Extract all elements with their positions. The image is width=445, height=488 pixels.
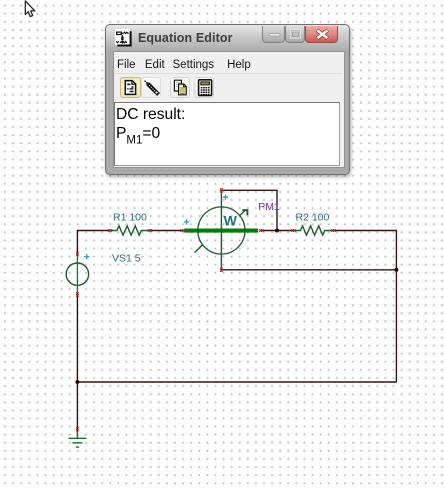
wattmeter PM1 <box>185 190 259 269</box>
R1 terminal pin marks <box>108 229 112 231</box>
wire: right vertical rail <box>395 231 397 383</box>
minimize button <box>262 26 285 43</box>
VS1 polarity plus sign <box>84 254 89 259</box>
wire: left vertical from top corner down to VS1 plus terminal <box>76 230 78 254</box>
toolbar edit-pencil button <box>141 77 161 98</box>
PM1 left polarity plus sign <box>184 219 189 224</box>
wire: R1 right terminal to wattmeter left terminal <box>150 230 183 232</box>
resistor R2 <box>295 226 332 235</box>
wire: bottom rail <box>77 381 396 383</box>
toolbar calculator button <box>194 77 215 98</box>
window caption text <box>138 31 233 45</box>
node junction dot at bottom rail and ground <box>75 380 79 384</box>
voltage source VS1 <box>66 254 88 295</box>
wire: wattmeter right terminal to R2 left terminal <box>261 230 293 232</box>
menu bar <box>106 24 349 26</box>
PM1 terminal pin marks <box>180 229 184 231</box>
node junction dot at PM1 top sense and R2 input <box>275 229 279 233</box>
R2 terminal pin marks <box>291 229 295 231</box>
wire: left vertical from VS1 minus terminal down to bottom rail <box>76 295 78 383</box>
resistor R1 <box>112 226 149 235</box>
toolbar copy button <box>170 77 190 98</box>
close button <box>305 26 338 43</box>
client area <box>114 52 344 167</box>
menu separator line <box>114 73 343 74</box>
node junction dot at PM1 bottom sense and right rail <box>394 268 398 272</box>
wire: wattmeter voltage top wire to node above R2 <box>221 190 277 230</box>
maximize button <box>285 26 305 43</box>
wire: R2 right terminal to right vertical rail <box>334 230 397 232</box>
wire: wattmeter voltage bottom wire to right rail <box>221 269 396 271</box>
VS1 terminal pin marks <box>76 252 78 256</box>
ground <box>69 431 87 448</box>
equation result memo <box>114 102 341 166</box>
wire: ground stem from bottom rail <box>76 382 78 429</box>
wire: left rail corner to R1 left terminal <box>77 230 110 232</box>
Equation Editor window <box>105 24 350 175</box>
PM1 top polarity plus sign <box>223 195 228 200</box>
window icon <box>115 29 133 47</box>
toolbar new-document button (checked) <box>120 77 141 98</box>
ground terminal pin mark <box>76 427 78 431</box>
